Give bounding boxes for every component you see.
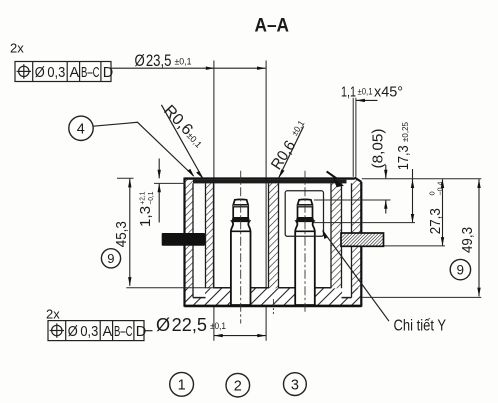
svg-text:B–C: B–C [114,324,133,340]
housing left outer wall [185,180,194,289]
svg-text:1,1: 1,1 [341,84,356,101]
inner wall edges [193,183,352,297]
balloon item 3 [284,373,307,396]
pin 2 centerline [304,171,306,313]
seal bar left (solid) [162,233,205,246]
cavity floor lines [214,287,332,289]
balloon 9 left [101,249,120,268]
pin 2 channel [295,289,314,305]
svg-text:1,3: 1,3 [138,206,154,227]
chamfer top right corner [355,178,362,182]
svg-text:2x: 2x [46,307,60,322]
housing left inner wall [206,183,214,288]
top cover plate [193,180,347,184]
pin 2 head band [298,205,313,207]
pin 1 centerline [240,171,242,324]
dimension diameter 23,5 +-0,1 [111,52,266,70]
pin 1 collar [232,218,250,221]
pin 1 channel [231,289,250,305]
dimension 1,3 +2,1/-0,1 [138,159,185,228]
corner arrow mark right (blob) [327,171,344,187]
flange right (hatched) [341,233,384,246]
housing right inner wall [331,183,342,288]
balloon item 2 [226,373,250,397]
slot floor lines [193,297,352,299]
balloon item 1 [170,372,194,396]
pin 2 head [298,199,313,218]
dimension 27,3 0/-0,4 [384,179,445,246]
pin 2 body [295,221,315,305]
housing central wall [269,183,279,288]
housing top face [185,177,355,179]
svg-text:Chi tiết Y: Chi tiết Y [394,318,447,335]
svg-text:±0,1: ±0,1 [175,57,192,68]
svg-text:±0,1: ±0,1 [358,87,373,97]
svg-text:Ø 22,5: Ø 22,5 [156,315,207,335]
svg-text:2: 2 [234,379,242,395]
dimension 17,3 +-0,25 [314,122,416,223]
extension line left (x=213.9) [213,61,215,341]
extension line right (x=266.1) [265,61,267,341]
svg-text:1: 1 [178,378,186,394]
svg-text:9: 9 [107,251,114,266]
svg-text:D: D [103,65,113,81]
dimension 1,1 +-0,1 x45 chamfer [341,84,403,177]
svg-text:2x: 2x [10,41,24,56]
leader R0,6 right [268,119,306,179]
svg-text:3: 3 [291,377,299,393]
pin 1 body [231,221,251,305]
svg-text:A: A [70,65,80,81]
leader R0,6 left [160,102,204,179]
svg-text:Ø 0,3: Ø 0,3 [68,324,99,340]
svg-text:9: 9 [457,263,465,278]
svg-text:49,3: 49,3 [459,227,476,253]
svg-text:27,3: 27,3 [427,208,444,234]
svg-text:(8,05): (8,05) [370,129,386,169]
svg-text:x45°: x45° [374,84,403,101]
central wall centerline stub [272,299,274,314]
svg-text:±0,25: ±0,25 [400,122,410,142]
svg-text:4: 4 [77,122,85,138]
housing bottom edge [184,305,361,308]
svg-text:D: D [136,324,146,340]
housing right outer wall [352,180,362,289]
pin 1 head [233,199,248,218]
left slot cavity [194,183,205,297]
svg-text:Ø 0,3: Ø 0,3 [35,65,66,81]
feature control frame bottom [48,321,153,341]
svg-text:17,3: 17,3 [396,145,412,170]
housing base slab (coarse hatch) [185,288,362,306]
svg-text:A–A: A–A [255,16,290,37]
pin 2 shoulder line [295,230,315,232]
pin 1 head band [233,205,248,207]
balloon item 4 [69,116,195,177]
svg-text:−0,1: −0,1 [146,192,155,205]
dimension (8,05) [314,129,391,214]
leader Chi tiet Y [322,230,446,335]
dimension diameter 22,5 +-0,1 [156,315,266,338]
pin 2 collar [296,218,314,221]
svg-text:Ø 23,5: Ø 23,5 [135,52,172,70]
housing left outer edge [183,178,185,307]
right slot cavity [342,183,351,297]
housing right outer edge [360,182,362,307]
balloon 9 right [450,259,470,279]
feature control frame top [15,62,111,82]
dimension 45,3 [113,178,213,288]
dimension 49,3 [362,179,482,298]
svg-text:±0,1: ±0,1 [210,321,226,332]
svg-text:45,3: 45,3 [113,221,130,247]
pin 1 shoulder line [231,230,251,232]
svg-text:B–C: B–C [81,65,100,81]
detail Y box [285,191,323,237]
svg-text:A: A [103,324,113,340]
